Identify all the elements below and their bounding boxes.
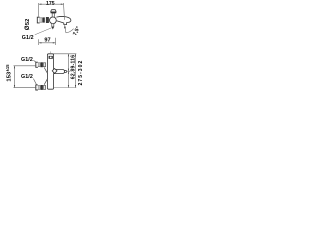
upper pipe diagonal xyxy=(44,68,47,74)
cap band xyxy=(49,56,53,59)
upper connector dark xyxy=(40,62,43,67)
handle cap base band xyxy=(51,12,57,13)
valve body circle xyxy=(50,17,57,24)
leader lower xyxy=(33,79,36,85)
cap tick xyxy=(49,51,51,53)
dimension 175 arrows xyxy=(39,4,64,5)
svg-text:7,5°: 7,5° xyxy=(72,26,81,37)
leader upper xyxy=(33,60,36,62)
body lower stem xyxy=(52,24,54,27)
upper wall bracket xyxy=(36,62,38,67)
body hub block xyxy=(46,17,49,23)
dimension 97 line xyxy=(39,38,56,45)
dimension 175 line xyxy=(39,3,64,17)
inner dim line xyxy=(68,54,70,88)
lower inlet block xyxy=(43,86,45,90)
outer dim line xyxy=(75,54,77,88)
spout front xyxy=(54,69,65,73)
lower union nut xyxy=(38,86,40,90)
svg-text:G1/2: G1/2 xyxy=(21,74,33,80)
union nut xyxy=(40,18,42,22)
diverter diamond xyxy=(52,69,57,74)
svg-text:G1/2: G1/2 xyxy=(22,35,34,41)
upper union nut xyxy=(38,63,40,67)
svg-text:275-302: 275-302 xyxy=(78,60,84,86)
connector block dark xyxy=(42,17,44,22)
bottom extension line right xyxy=(54,87,76,89)
lower wall bracket xyxy=(36,85,38,90)
inner dim arrows xyxy=(68,54,69,88)
dimension 97 arrows xyxy=(39,42,56,43)
upper extension line left xyxy=(14,65,37,67)
outlet axis line lower xyxy=(65,25,66,33)
bottom extension line left xyxy=(14,87,37,89)
spout axis extension xyxy=(67,70,71,72)
outer dim arrows xyxy=(75,54,76,88)
angle arrowhead xyxy=(64,25,66,28)
lower connector dark xyxy=(40,85,43,90)
stem cone tip xyxy=(52,27,55,30)
angle arc 7.5 xyxy=(66,29,74,33)
svg-text:Ø52: Ø52 xyxy=(24,19,31,31)
cap band dot xyxy=(50,57,52,59)
lower pipe diagonal xyxy=(44,79,47,85)
dim 153 arrows xyxy=(14,66,15,88)
wall flange bracket (side view) xyxy=(37,17,39,23)
svg-text:153±15: 153±15 xyxy=(5,64,12,82)
top extension line xyxy=(50,53,76,55)
column body xyxy=(47,54,53,89)
dim 153 line xyxy=(14,66,16,88)
handle cap xyxy=(51,10,56,12)
upper inlet block xyxy=(43,63,45,67)
outlet axis line upper xyxy=(64,3,65,20)
leader G1/2 top xyxy=(35,28,52,35)
spout curved xyxy=(56,16,71,24)
svg-text:G1/2: G1/2 xyxy=(21,57,33,63)
aerator nub xyxy=(64,70,66,72)
handle stem xyxy=(52,13,54,17)
